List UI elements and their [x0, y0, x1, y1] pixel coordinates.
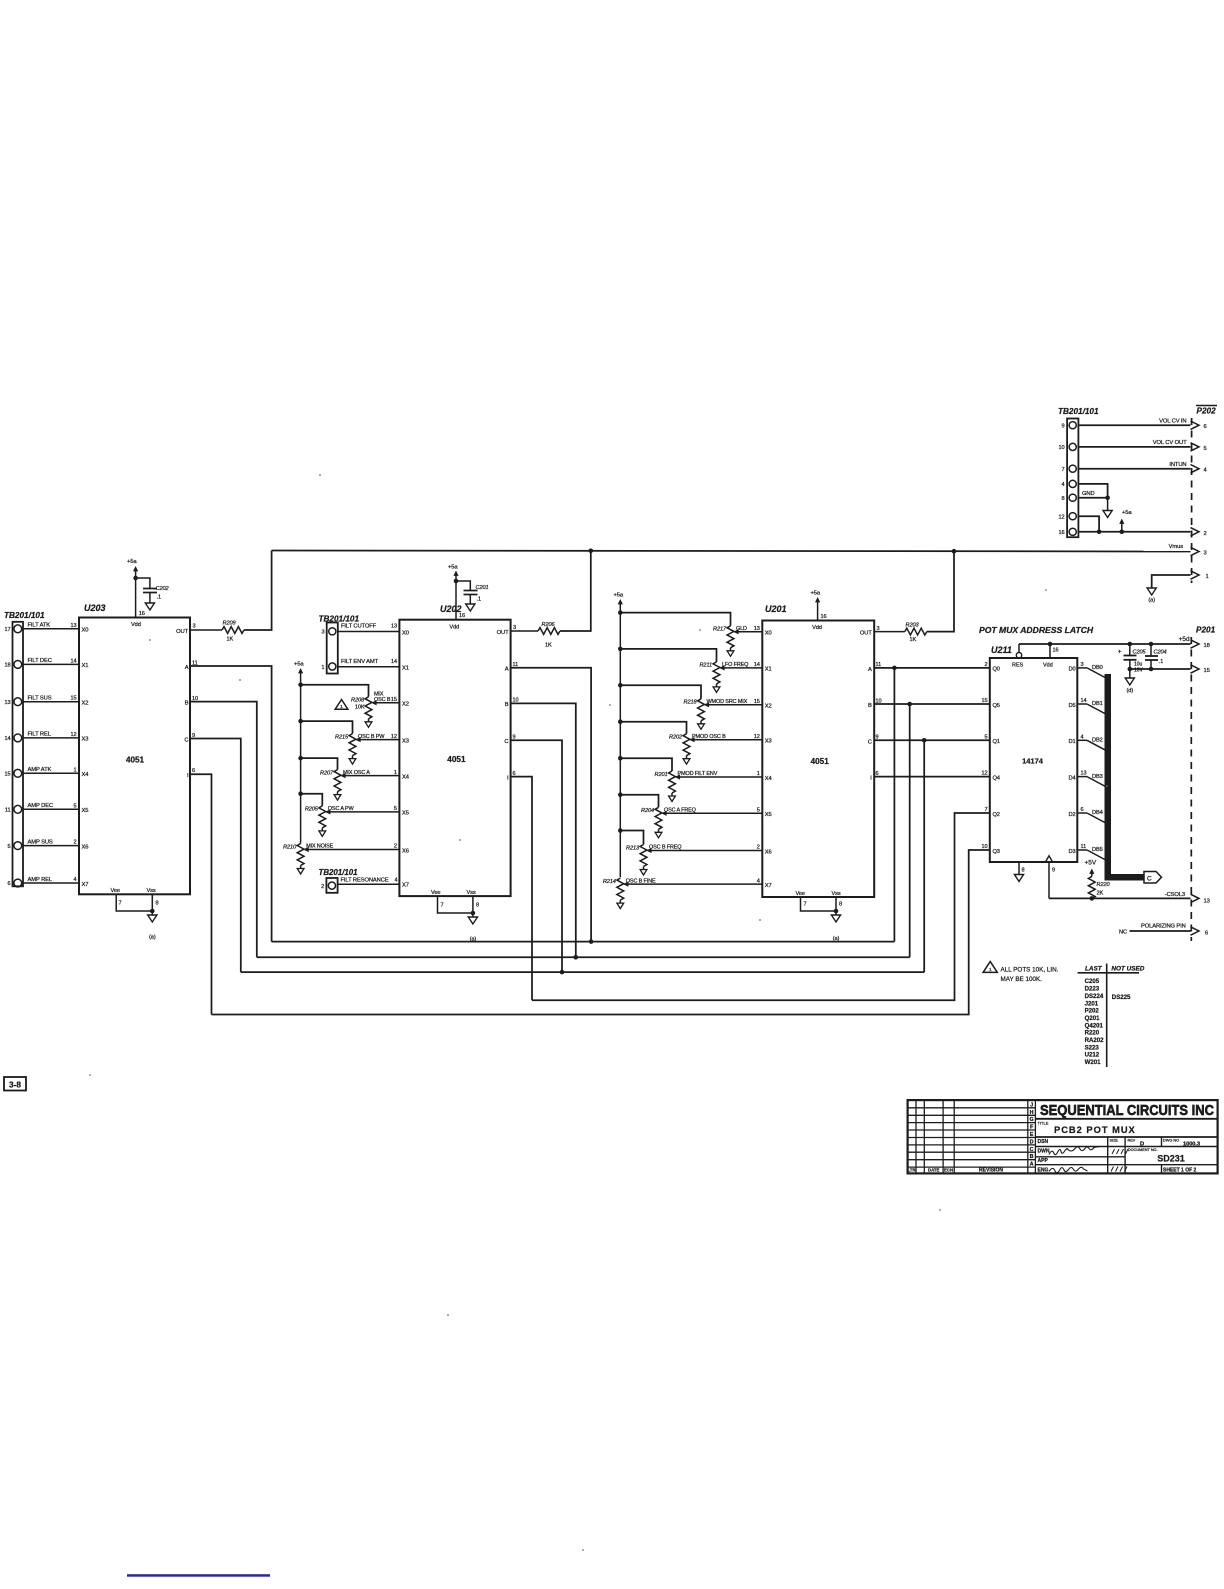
- svg-text:REV: REV: [1128, 1139, 1136, 1143]
- wire INTUN: [1078, 468, 1190, 470]
- svg-text:D5: D5: [1068, 703, 1075, 709]
- wire bus B (mux address B): [257, 956, 910, 958]
- svg-text:DB2: DB2: [1092, 738, 1103, 744]
- svg-text:15: 15: [70, 696, 76, 702]
- svg-text:D: D: [1140, 1141, 1144, 1147]
- wire U201 I to U211 Q4: [874, 776, 990, 778]
- svg-text:9: 9: [1061, 423, 1064, 429]
- svg-text:X1: X1: [82, 663, 89, 669]
- svg-text:1: 1: [73, 767, 76, 773]
- svg-text:16: 16: [139, 611, 145, 617]
- wire +5a branch to R201: [620, 758, 672, 771]
- svg-text:NC: NC: [1119, 930, 1127, 936]
- svg-text:NOT USED: NOT USED: [1111, 965, 1144, 972]
- bus DB0-DB5 (thick): [1105, 674, 1112, 881]
- ground (d): [1129, 669, 1131, 678]
- svg-text:+5V: +5V: [1085, 860, 1097, 867]
- svg-text:D2: D2: [1068, 812, 1075, 818]
- wire U201 pin7/pin8 to ground: [801, 897, 837, 911]
- svg-text:D3: D3: [1068, 849, 1075, 855]
- pot R204 OSC A FREQ: [655, 807, 662, 829]
- resistor R220 2K: [1088, 877, 1095, 899]
- svg-text:R213: R213: [626, 845, 640, 851]
- svg-text:10K: 10K: [355, 704, 365, 710]
- svg-text:DS225: DS225: [1112, 994, 1131, 1001]
- svg-text:X2: X2: [765, 704, 772, 710]
- svg-text:X4: X4: [765, 776, 773, 782]
- svg-text:P201: P201: [1196, 626, 1216, 635]
- svg-text:16: 16: [1053, 648, 1059, 654]
- svg-text:D: D: [1030, 1139, 1034, 1145]
- wire FILT RESONANCE: [338, 883, 400, 885]
- svg-text:R214: R214: [603, 879, 616, 885]
- svg-text:TB201/101: TB201/101: [319, 615, 360, 624]
- resistor R209 1K: [190, 629, 222, 631]
- svg-text:1K: 1K: [545, 643, 552, 649]
- svg-text:5: 5: [73, 803, 76, 809]
- svg-text:17: 17: [4, 627, 10, 633]
- ground: [145, 603, 154, 610]
- wire +5a branch to R205: [301, 794, 323, 806]
- svg-text:3: 3: [321, 630, 324, 636]
- svg-text:DB4: DB4: [1092, 810, 1103, 816]
- svg-text:4051: 4051: [811, 757, 830, 766]
- capacitor C201 .1: [456, 581, 470, 591]
- wire +5a branch to R202: [620, 722, 686, 734]
- svg-text:B: B: [185, 700, 189, 706]
- svg-text:1: 1: [1206, 574, 1209, 580]
- svg-text:DB3: DB3: [1092, 774, 1103, 780]
- svg-text:X7: X7: [402, 882, 409, 888]
- svg-text:C205: C205: [1133, 650, 1147, 656]
- pot R213 OSC B FREQ: [640, 845, 647, 867]
- ground (a): [148, 915, 157, 922]
- svg-text:DWN: DWN: [1038, 1149, 1050, 1155]
- svg-text:18: 18: [4, 663, 10, 669]
- svg-text:Vee: Vee: [796, 891, 805, 897]
- svg-text:Q4201: Q4201: [1085, 1022, 1104, 1029]
- wire DB5: [1077, 849, 1087, 851]
- svg-text:R207: R207: [320, 770, 334, 776]
- svg-text:D0: D0: [1068, 667, 1075, 673]
- resistor R203 1K: [874, 631, 905, 633]
- svg-text:SHEET 1 OF 2: SHEET 1 OF 2: [1163, 1168, 1197, 1174]
- svg-text:C204: C204: [1154, 650, 1167, 656]
- signature DWN: [1049, 1147, 1100, 1155]
- wire U202 A to bus A: [511, 668, 591, 942]
- wire R201 wiper to mux input: [680, 776, 763, 778]
- svg-text:DB1: DB1: [1092, 701, 1103, 707]
- svg-text:4: 4: [394, 877, 397, 883]
- svg-text:DS224: DS224: [1085, 993, 1104, 1000]
- wire +5a branch to R204: [620, 795, 658, 808]
- wire +5a branch to R208: [301, 685, 369, 697]
- ground (a): [468, 917, 477, 924]
- svg-text:8: 8: [156, 901, 159, 907]
- ground (a): [831, 915, 840, 922]
- svg-text:18: 18: [1204, 643, 1210, 649]
- wire U202 C to bus C: [511, 740, 562, 972]
- pot R215 OSC B PW: [349, 734, 356, 756]
- svg-text:TB201/101: TB201/101: [4, 611, 45, 620]
- svg-text:U211: U211: [991, 645, 1012, 655]
- wire C junction to bus C: [923, 740, 925, 972]
- svg-text:R205: R205: [305, 807, 319, 813]
- svg-text:E: E: [1030, 1132, 1034, 1138]
- bus flag C: [1144, 872, 1162, 884]
- svg-text:R202: R202: [669, 735, 683, 741]
- svg-text:X4: X4: [82, 772, 90, 778]
- wire +5a branch to R217: [620, 613, 730, 626]
- svg-text:2: 2: [321, 884, 324, 890]
- svg-text:R203: R203: [906, 623, 920, 629]
- svg-text:C201: C201: [476, 585, 489, 591]
- wire U203 C to bus C: [190, 739, 241, 973]
- svg-text:A: A: [868, 667, 872, 673]
- svg-text:15: 15: [4, 772, 10, 778]
- wire U203 pin7/pin8 to ground: [116, 894, 152, 911]
- svg-text:R209: R209: [223, 621, 236, 627]
- ground: [466, 604, 475, 611]
- svg-text:1000.3: 1000.3: [1183, 1141, 1201, 1147]
- svg-text:R210: R210: [283, 844, 297, 850]
- svg-text:SD231: SD231: [1157, 1154, 1185, 1164]
- wire R202 wiper to mux input: [694, 739, 762, 741]
- wire pins 12+16 to +5a and P202 pin 2: [1078, 516, 1099, 532]
- svg-text:AMP DEC: AMP DEC: [28, 803, 53, 809]
- svg-text:+5a: +5a: [614, 593, 624, 599]
- svg-text:12: 12: [1058, 514, 1064, 520]
- svg-text:POT MUX ADDRESS LATCH: POT MUX ADDRESS LATCH: [979, 625, 1094, 635]
- svg-text:Q2: Q2: [993, 812, 1000, 818]
- svg-text:X6: X6: [765, 849, 772, 855]
- svg-text:LTR: LTR: [907, 1167, 916, 1172]
- wire +5a branch to R215: [301, 721, 353, 734]
- svg-text:D4: D4: [1068, 775, 1075, 781]
- note ALL POTS 10K: [983, 962, 997, 973]
- wire R218 wiper to mux input: [709, 704, 763, 706]
- wire DB0: [1077, 667, 1087, 669]
- wire +5a branch to R218: [620, 685, 701, 699]
- svg-text:X7: X7: [82, 882, 89, 888]
- pin RES (1) with bubble: [1016, 653, 1021, 658]
- svg-text:VOL CV OUT: VOL CV OUT: [1153, 440, 1187, 446]
- wire R209 to Vmus: [244, 551, 272, 631]
- svg-text:14: 14: [391, 659, 397, 665]
- capacitor C202 .1: [136, 578, 150, 589]
- svg-text:14: 14: [70, 658, 76, 664]
- svg-text:J201: J201: [1085, 1000, 1099, 1007]
- svg-text:AMP ATK: AMP ATK: [28, 767, 52, 773]
- wire DB3: [1077, 776, 1087, 778]
- svg-text:8: 8: [839, 902, 842, 908]
- svg-text:X5: X5: [402, 811, 409, 817]
- wire DB2: [1077, 739, 1087, 741]
- svg-text:RES: RES: [1012, 663, 1024, 669]
- svg-text:FILT SUS: FILT SUS: [28, 696, 52, 702]
- wire FILT ATK: [23, 628, 79, 630]
- svg-text:12: 12: [981, 771, 987, 777]
- wire VOL CV OUT: [1078, 446, 1190, 448]
- svg-text:6: 6: [192, 768, 195, 774]
- capacitor C205 10u 10V: [1129, 644, 1131, 656]
- svg-text:U201: U201: [765, 604, 787, 614]
- svg-text:C: C: [1030, 1147, 1034, 1153]
- svg-text:.1: .1: [1159, 659, 1163, 665]
- pin Vdd (16): [1049, 644, 1051, 658]
- logo SEQUENTIAL CIRCUITS INC: [1035, 1118, 1217, 1120]
- svg-text:10: 10: [981, 844, 987, 850]
- svg-text:X0: X0: [402, 630, 409, 636]
- svg-text:Vmus: Vmus: [1169, 544, 1184, 550]
- pot R211 LFO FREQ: [713, 662, 720, 684]
- scan speckles: [239, 679, 241, 681]
- pot R217 GLD: [727, 626, 734, 648]
- wire R204 wiper to mux input: [666, 812, 762, 814]
- svg-text:X7: X7: [765, 883, 772, 889]
- svg-text:MAY BE 100K.: MAY BE 100K.: [1001, 976, 1043, 983]
- svg-text:6: 6: [7, 881, 10, 887]
- wire R208 wiper to mux input: [376, 702, 399, 704]
- svg-text:R201: R201: [655, 772, 668, 778]
- svg-text:14174: 14174: [1022, 757, 1044, 766]
- svg-text:R220: R220: [1085, 1030, 1100, 1037]
- blue underline: [127, 1574, 270, 1577]
- svg-text:C: C: [184, 737, 188, 743]
- svg-text:4: 4: [1081, 734, 1084, 740]
- svg-text:R211: R211: [699, 663, 712, 669]
- svg-text:3: 3: [513, 625, 516, 631]
- wire U202 inhibit to U211 Q2: [532, 813, 990, 1000]
- svg-text:Vee: Vee: [431, 890, 440, 896]
- svg-text:8: 8: [1061, 496, 1064, 502]
- svg-text:.1: .1: [477, 597, 481, 603]
- wire U201 B to U211 Q5: [874, 703, 990, 705]
- svg-text:U203: U203: [84, 603, 106, 613]
- svg-text:X2: X2: [402, 702, 409, 708]
- pot R214 OSC B FINE: [617, 878, 624, 900]
- ground (a): [1147, 588, 1156, 595]
- wire FILT DEC: [23, 663, 79, 665]
- svg-text:16: 16: [821, 614, 827, 620]
- wire U201 A to U211 Q0: [874, 667, 990, 669]
- svg-text:H: H: [1030, 1110, 1034, 1116]
- svg-text:Q5: Q5: [993, 703, 1000, 709]
- wire -CSOL3 to P201 pin 13: [1049, 897, 1191, 899]
- svg-text:S223: S223: [1085, 1044, 1100, 1051]
- svg-text:DOCUMENT NO.: DOCUMENT NO.: [1128, 1148, 1158, 1152]
- svg-text:13: 13: [4, 700, 10, 706]
- svg-text:X6: X6: [82, 844, 89, 850]
- svg-text:7: 7: [1061, 467, 1064, 473]
- wire AMP ATK: [23, 772, 79, 774]
- svg-text:1: 1: [321, 665, 324, 671]
- svg-text:APP: APP: [1038, 1158, 1049, 1164]
- svg-text:B: B: [1030, 1154, 1034, 1160]
- wire R206 to Vmus: [560, 551, 591, 631]
- svg-text:AMP SUS: AMP SUS: [28, 839, 53, 845]
- svg-text:6: 6: [1205, 931, 1208, 937]
- wire U202 B to bus B: [511, 703, 576, 957]
- pot R207 MIX OSC A: [334, 770, 341, 792]
- wire FILT ENV AMT: [338, 666, 400, 668]
- svg-text:C: C: [868, 739, 872, 745]
- svg-text:FILT CUTOFF: FILT CUTOFF: [341, 624, 377, 630]
- wire R205 wiper to mux input: [330, 811, 400, 813]
- svg-text:C202: C202: [156, 586, 170, 592]
- svg-text:14: 14: [4, 736, 10, 742]
- svg-text:6: 6: [1081, 807, 1084, 813]
- svg-text:10: 10: [1058, 445, 1064, 451]
- svg-text:7: 7: [804, 902, 807, 908]
- svg-text:GND: GND: [1082, 491, 1095, 497]
- svg-text:A: A: [185, 665, 189, 671]
- wire AMP REL: [23, 882, 79, 884]
- svg-text:VOL CV IN: VOL CV IN: [1159, 418, 1186, 424]
- svg-text:Q3: Q3: [993, 849, 1000, 855]
- wire bus A (mux address A): [272, 941, 895, 943]
- wire R211 wiper to mux input: [724, 667, 762, 669]
- wire AMP DEC: [23, 808, 79, 810]
- wire FILT SUS: [23, 701, 79, 703]
- svg-text:3: 3: [193, 624, 196, 630]
- svg-text:FILT REL: FILT REL: [28, 732, 52, 738]
- svg-text:3: 3: [1204, 551, 1207, 557]
- pot R218 WMOD SRC MIX: [698, 699, 705, 721]
- svg-text:FILT DEC: FILT DEC: [28, 658, 52, 664]
- wire GND pins 4+8: [1078, 484, 1107, 498]
- svg-text:15: 15: [981, 698, 987, 704]
- svg-text:+5a: +5a: [811, 591, 821, 597]
- svg-text:X4: X4: [402, 774, 410, 780]
- svg-text:R215: R215: [335, 734, 349, 740]
- pot R210 MIX NOISE: [297, 844, 304, 866]
- svg-text:2K: 2K: [1097, 891, 1104, 897]
- svg-text:INTUN: INTUN: [1169, 462, 1186, 468]
- svg-text:DSN: DSN: [1038, 1139, 1049, 1145]
- svg-text:16: 16: [459, 613, 465, 619]
- svg-text:DB5: DB5: [1092, 847, 1103, 853]
- svg-text:X2: X2: [82, 701, 89, 707]
- svg-text:OUT: OUT: [497, 630, 509, 636]
- svg-text:DATE: DATE: [928, 1167, 940, 1172]
- ground: [1107, 498, 1109, 511]
- svg-text:B: B: [505, 702, 509, 708]
- svg-text:Q4: Q4: [993, 775, 1000, 781]
- svg-text:16: 16: [1058, 530, 1064, 536]
- wire AMP SUS: [23, 845, 79, 847]
- svg-text:POLARIZING PIN: POLARIZING PIN: [1141, 924, 1186, 930]
- svg-text:(d): (d): [1127, 688, 1134, 694]
- title block frame: [908, 1100, 1218, 1173]
- wire +5d to P201 pin 18: [1019, 643, 1191, 645]
- svg-text:LAST: LAST: [1085, 965, 1103, 972]
- svg-text:FILT ATK: FILT ATK: [28, 623, 51, 629]
- wire U203 B to bus B: [190, 702, 257, 958]
- svg-text:8: 8: [1022, 868, 1025, 874]
- svg-text:P202: P202: [1085, 1008, 1100, 1015]
- svg-text:TITLE: TITLE: [1038, 1121, 1049, 1126]
- svg-text:Vss: Vss: [467, 890, 476, 896]
- svg-text:4: 4: [73, 877, 76, 883]
- svg-text:DWG NO: DWG NO: [1163, 1139, 1179, 1143]
- wire R214 wiper to mux input: [628, 883, 763, 885]
- svg-text:3-8: 3-8: [9, 1080, 21, 1090]
- svg-text:ECN: ECN: [944, 1167, 953, 1172]
- svg-text:4051: 4051: [447, 755, 466, 764]
- wire P202 pin 1 to ground: [1152, 575, 1191, 588]
- wire R217 wiper to mux input: [738, 631, 762, 633]
- svg-text:REVISION: REVISION: [979, 1168, 1003, 1174]
- wire caps to P201 pin 15: [1130, 668, 1191, 670]
- wire DB1: [1077, 703, 1087, 705]
- signature ENG: [1049, 1167, 1088, 1172]
- wire A junction to bus A: [893, 668, 895, 942]
- svg-text:13: 13: [391, 624, 397, 630]
- svg-text:2: 2: [984, 662, 987, 668]
- svg-text:X6: X6: [402, 848, 409, 854]
- svg-text:+5a: +5a: [448, 565, 458, 571]
- svg-text:7: 7: [119, 901, 122, 907]
- svg-text:G: G: [1029, 1117, 1033, 1123]
- svg-text:C: C: [504, 739, 508, 745]
- svg-text:6: 6: [1204, 424, 1207, 430]
- svg-text:R206: R206: [542, 622, 556, 628]
- svg-text:PCB2 POT MUX: PCB2 POT MUX: [1054, 1125, 1136, 1135]
- pot R201 PMOD FILT ENV: [669, 771, 676, 793]
- svg-text:1K: 1K: [910, 637, 917, 643]
- wire +5a branch to R207: [301, 758, 338, 770]
- svg-text:X3: X3: [82, 737, 89, 743]
- wire FILT REL: [23, 737, 79, 739]
- svg-text:RA202: RA202: [1085, 1037, 1105, 1044]
- svg-text:5: 5: [1204, 446, 1207, 452]
- svg-text:FILT RESONANCE: FILT RESONANCE: [341, 877, 389, 883]
- svg-text:+5a: +5a: [294, 662, 304, 668]
- wire U202 pin7/pin8 to ground: [438, 896, 473, 913]
- svg-text:Vdd: Vdd: [1043, 663, 1053, 669]
- svg-text:Vdd: Vdd: [131, 622, 141, 628]
- svg-text:A: A: [1030, 1162, 1034, 1168]
- svg-text:X1: X1: [402, 666, 409, 672]
- wire U201 C to U211 Q1: [874, 739, 990, 741]
- svg-text:R218: R218: [684, 700, 698, 706]
- svg-text:R220: R220: [1097, 882, 1111, 888]
- svg-text:14: 14: [1081, 698, 1087, 704]
- svg-text:3: 3: [1081, 662, 1084, 668]
- svg-text:U212: U212: [1085, 1052, 1100, 1059]
- svg-text:5: 5: [7, 844, 10, 850]
- svg-text:7: 7: [441, 903, 444, 909]
- wire R210 wiper to mux input: [308, 849, 399, 851]
- wire R215 wiper to mux input: [360, 739, 399, 741]
- wire DB4: [1077, 812, 1087, 814]
- svg-text:+: +: [1118, 649, 1122, 656]
- svg-text:C: C: [1147, 875, 1152, 882]
- svg-text:13: 13: [70, 623, 76, 629]
- svg-text:OUT: OUT: [176, 629, 188, 635]
- revision table: [915, 1100, 917, 1173]
- svg-text:D223: D223: [1085, 986, 1100, 993]
- svg-text:C205: C205: [1085, 978, 1100, 985]
- pin CLK (9): [1045, 856, 1052, 862]
- resistor R206 1K: [511, 630, 538, 632]
- svg-text:+5a: +5a: [127, 559, 137, 565]
- svg-text:4051: 4051: [126, 756, 145, 765]
- svg-text:R204: R204: [641, 808, 654, 814]
- wire U202 I to Q2 bus: [511, 777, 532, 1001]
- svg-text:2: 2: [1204, 531, 1207, 537]
